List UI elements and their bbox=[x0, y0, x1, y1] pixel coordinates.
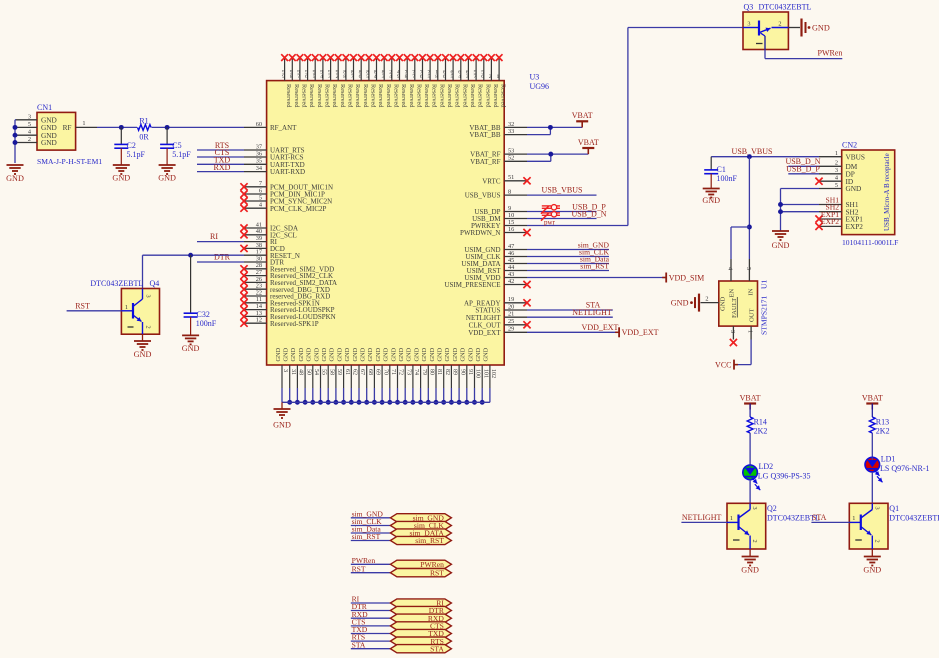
svg-text:Reserved: Reserved bbox=[377, 84, 384, 108]
svg-text:21: 21 bbox=[508, 311, 514, 318]
svg-text:GND: GND bbox=[298, 347, 305, 361]
svg-text:Q3: Q3 bbox=[744, 3, 754, 12]
svg-text:4: 4 bbox=[458, 74, 461, 80]
svg-text:100nF: 100nF bbox=[717, 174, 738, 183]
svg-text:GND: GND bbox=[336, 347, 343, 361]
svg-text:6: 6 bbox=[359, 74, 362, 80]
svg-text:Reserved: Reserved bbox=[385, 84, 392, 108]
svg-text:sim_RST: sim_RST bbox=[415, 536, 444, 545]
U3 bottom pin 100 GND bbox=[467, 347, 480, 404]
wire net RXD bbox=[197, 163, 244, 172]
U3 top pin 95 Reserved bbox=[312, 54, 323, 108]
svg-text:7: 7 bbox=[474, 74, 477, 80]
svg-text:Reserved: Reserved bbox=[339, 84, 346, 108]
svg-text:Reserved: Reserved bbox=[438, 84, 445, 108]
svg-text:VBAT_BB: VBAT_BB bbox=[469, 131, 500, 139]
junction node RESET-C32 bbox=[188, 253, 193, 258]
U3 bottom pin 48 GND bbox=[290, 347, 303, 404]
U3 right pin 44 USIM_RST bbox=[467, 264, 527, 275]
svg-text:VCC: VCC bbox=[715, 360, 731, 369]
U3 left pin 13 Reserved-LOUDSPKN bbox=[240, 310, 335, 321]
svg-text:GND: GND bbox=[112, 174, 130, 183]
svg-text:47: 47 bbox=[508, 243, 514, 250]
U3 right pin 9 USB_DP bbox=[474, 205, 527, 216]
wire net DTR left bbox=[197, 253, 244, 262]
U3 left pin 22 reserved_DBG_RXD bbox=[240, 289, 330, 300]
svg-text:19: 19 bbox=[508, 296, 514, 303]
U3 right pin 33 VBAT_BB bbox=[469, 128, 527, 139]
svg-text:GND: GND bbox=[313, 347, 320, 361]
svg-text:Reserved: Reserved bbox=[492, 84, 499, 108]
U3 top pin 94 Reserved bbox=[320, 54, 331, 108]
U3 left pin 30 DTR bbox=[244, 255, 284, 266]
svg-text:Reserved: Reserved bbox=[301, 84, 308, 108]
U3 bottom pin 80 GND bbox=[421, 347, 434, 404]
X no-connect CN2 ID bbox=[815, 178, 822, 185]
svg-text:1: 1 bbox=[730, 515, 733, 522]
off-page connector RST bbox=[351, 564, 452, 577]
diff pair marker 2 bbox=[541, 212, 560, 221]
U3 bottom pin 72 GND bbox=[390, 347, 403, 404]
svg-text:NETLIGHT: NETLIGHT bbox=[572, 308, 612, 317]
U3 left pin 40 I2C_SCL bbox=[240, 228, 296, 239]
svg-text:4: 4 bbox=[320, 74, 323, 80]
U3 left pin 7 PCM_DOUT_MIC1N bbox=[240, 180, 333, 191]
svg-text:1: 1 bbox=[125, 304, 128, 311]
off-page connector PWRen bbox=[351, 556, 452, 569]
svg-text:6: 6 bbox=[420, 74, 423, 80]
U3 top pin 64 Reserved bbox=[457, 54, 468, 108]
svg-text:GND: GND bbox=[158, 174, 176, 183]
wire VBAT_RF pair bbox=[527, 152, 588, 162]
svg-text:GND: GND bbox=[467, 347, 474, 361]
svg-text:3: 3 bbox=[382, 74, 385, 80]
svg-text:R1: R1 bbox=[139, 116, 148, 125]
U3 right pin 21 NETLIGHT bbox=[466, 311, 527, 322]
svg-text:6: 6 bbox=[481, 74, 484, 80]
svg-text:GND: GND bbox=[863, 566, 881, 575]
svg-text:61: 61 bbox=[344, 369, 350, 375]
U3 left pin 37 UART_RTS bbox=[244, 143, 305, 154]
ground C2 bbox=[112, 165, 130, 183]
wire net NETLIGHT to Q2 bbox=[681, 513, 727, 522]
svg-text:UG96: UG96 bbox=[530, 82, 550, 91]
svg-text:GND: GND bbox=[344, 347, 351, 361]
svg-text:72: 72 bbox=[398, 369, 404, 375]
wire CN2 GND SH1 SH2 bbox=[778, 189, 839, 232]
wire net sim_CLK right bbox=[527, 248, 610, 257]
svg-text:VBAT: VBAT bbox=[578, 138, 599, 147]
svg-text:50: 50 bbox=[305, 369, 311, 375]
svg-text:GND: GND bbox=[275, 347, 282, 361]
svg-text:58: 58 bbox=[328, 369, 334, 375]
ground Q1 bbox=[863, 549, 881, 575]
power VBAT Q1 bbox=[862, 393, 883, 417]
svg-text:RF_ANT: RF_ANT bbox=[270, 124, 297, 132]
wire LED to Q2 bbox=[749, 480, 751, 504]
resistor R13 2K2 bbox=[869, 417, 889, 436]
svg-text:SH2: SH2 bbox=[825, 203, 839, 212]
svg-text:STA: STA bbox=[430, 644, 444, 653]
U3 top pin 88 Reserved bbox=[343, 54, 354, 108]
svg-text:2K2: 2K2 bbox=[754, 427, 768, 436]
svg-text:81: 81 bbox=[436, 369, 442, 375]
svg-text:37: 37 bbox=[256, 143, 262, 150]
U3 bottom pin 102 GND bbox=[483, 347, 496, 402]
U3 left pin 14 Reserved-LOUDSPKP bbox=[240, 303, 334, 314]
transistor Q1 DTC043ZEBTL bbox=[849, 503, 939, 549]
svg-text:GND: GND bbox=[483, 347, 490, 361]
capacitor C5 5.1pF bbox=[160, 127, 191, 165]
svg-text:GND: GND bbox=[452, 347, 459, 361]
X no-connect U1 FAULT bbox=[730, 339, 737, 346]
U3 bottom pin 81 GND bbox=[429, 347, 442, 404]
svg-text:FAULT: FAULT bbox=[731, 298, 738, 318]
capacitor C2 5.1pF bbox=[114, 127, 145, 165]
svg-text:GND: GND bbox=[702, 196, 720, 205]
svg-text:DTC043ZEBTL: DTC043ZEBTL bbox=[889, 514, 939, 523]
svg-text:Reserved: Reserved bbox=[347, 84, 354, 108]
svg-text:44: 44 bbox=[508, 264, 515, 271]
svg-text:59: 59 bbox=[336, 369, 342, 375]
svg-text:GND: GND bbox=[6, 174, 24, 183]
U3 right pin 46 USIM_CLK bbox=[465, 250, 527, 261]
svg-text:48: 48 bbox=[298, 369, 304, 375]
svg-text:7: 7 bbox=[412, 74, 415, 80]
svg-text:UART-RXD: UART-RXD bbox=[270, 168, 305, 176]
svg-text:GND: GND bbox=[352, 347, 359, 361]
svg-text:32: 32 bbox=[508, 121, 514, 128]
U3 left pin 26 Reserved_SIM2_DATA bbox=[240, 276, 337, 287]
LED LD2 LG Q396-PS-35 bbox=[743, 462, 811, 490]
svg-text:Q1: Q1 bbox=[889, 504, 899, 513]
svg-text:OUT: OUT bbox=[749, 308, 756, 322]
U3 right pin 20 STATUS bbox=[475, 303, 527, 314]
U3 bottom pin 82 GND bbox=[437, 347, 450, 404]
svg-text:U1: U1 bbox=[760, 280, 769, 289]
U3 right pin 42 USIM_PRESENCE bbox=[444, 278, 530, 289]
svg-text:VDD_EXT: VDD_EXT bbox=[582, 323, 619, 332]
svg-text:VDD_EXT: VDD_EXT bbox=[622, 328, 659, 337]
svg-text:RST: RST bbox=[75, 301, 90, 310]
svg-text:GND: GND bbox=[772, 241, 790, 250]
svg-text:PCM_CLK_MIC2P: PCM_CLK_MIC2P bbox=[270, 205, 327, 213]
CN2 pin VBUS bbox=[819, 150, 865, 161]
svg-text:USB_D_P: USB_D_P bbox=[786, 165, 820, 174]
wire net sim_GND right bbox=[527, 241, 610, 250]
wire net sim_Data right bbox=[527, 255, 610, 264]
wire RF net bbox=[97, 126, 244, 128]
svg-text:Reserved: Reserved bbox=[331, 84, 338, 108]
svg-text:Reserved: Reserved bbox=[308, 84, 315, 108]
connector CN1 SMA-J-P-H-ST-EM1 body bbox=[37, 103, 102, 166]
ground Q2 bbox=[741, 549, 759, 575]
svg-text:Reserved: Reserved bbox=[316, 84, 323, 108]
svg-text:Reserved: Reserved bbox=[461, 84, 468, 108]
U1 pin 1 OUT stub bbox=[747, 326, 754, 339]
CN2 pin EXP2 bbox=[819, 222, 863, 231]
svg-text:Q2: Q2 bbox=[767, 504, 777, 513]
U3 bottom pin 62 GND bbox=[344, 347, 357, 404]
wire net NETLIGHT from pin 21 bbox=[527, 308, 613, 317]
wire net sim_RST right bbox=[527, 262, 609, 271]
port VDD_SIM bbox=[662, 273, 704, 283]
U3 top pin 97 Reserved bbox=[297, 54, 308, 108]
U3 left pin 36 UART-RCS bbox=[244, 150, 304, 161]
svg-text:3: 3 bbox=[835, 167, 838, 174]
svg-text:53: 53 bbox=[508, 148, 514, 155]
svg-text:GND: GND bbox=[321, 347, 328, 361]
U3 bottom pin 67 GND bbox=[352, 347, 365, 404]
svg-text:Reserved: Reserved bbox=[446, 84, 453, 108]
U3 left pin 35 UART-TXD bbox=[244, 158, 305, 169]
ground Q4 bbox=[134, 334, 152, 359]
svg-text:C5: C5 bbox=[172, 141, 181, 150]
svg-text:69: 69 bbox=[375, 369, 381, 375]
U3 bottom pin 3 GND bbox=[275, 347, 288, 402]
wire net STA to Q1 bbox=[811, 513, 849, 522]
wire VBAT_BB pair bbox=[527, 125, 582, 135]
off-page connector sim_GND bbox=[351, 509, 452, 522]
svg-text:7: 7 bbox=[259, 180, 262, 187]
U3 bottom pin 71 GND bbox=[383, 347, 396, 404]
svg-text:7: 7 bbox=[297, 74, 300, 80]
ground U3 bus bbox=[273, 402, 291, 429]
svg-text:VDD_SIM: VDD_SIM bbox=[669, 273, 705, 282]
svg-text:33: 33 bbox=[508, 128, 514, 135]
svg-text:2: 2 bbox=[778, 20, 781, 27]
U3 left pin 38 DCD bbox=[240, 242, 284, 253]
svg-text:73: 73 bbox=[405, 369, 411, 375]
U3 bottom pin 58 GND bbox=[321, 347, 334, 404]
svg-text:10104111-0001LF: 10104111-0001LF bbox=[842, 238, 898, 247]
U3 left pin 17 RESET_N bbox=[244, 249, 300, 260]
svg-text:GND: GND bbox=[41, 138, 57, 147]
svg-text:71: 71 bbox=[390, 369, 396, 375]
CN2 pin DM bbox=[819, 160, 858, 171]
svg-text:GND: GND bbox=[367, 347, 374, 361]
svg-text:Reserved: Reserved bbox=[362, 84, 369, 108]
U3 top pin 18 Reserved bbox=[434, 54, 445, 108]
svg-text:CN1: CN1 bbox=[37, 103, 52, 112]
svg-text:2: 2 bbox=[751, 540, 758, 543]
LED LD1 LS Q976-NR-1 bbox=[865, 454, 930, 482]
wire net TXD bbox=[197, 156, 244, 165]
wire OUT to VCC bbox=[734, 340, 751, 365]
svg-text:Q4: Q4 bbox=[150, 279, 160, 288]
U3 right pin 47 USIM_GND bbox=[464, 243, 527, 254]
U3 right pin 45 USIM_DATA bbox=[461, 257, 527, 268]
U3 right pin 43 USIM_VDD bbox=[464, 271, 527, 282]
U3 bottom pin 31 GND bbox=[283, 347, 296, 404]
off-page connector RTS bbox=[351, 633, 452, 646]
junction dots CN1 bbox=[13, 125, 18, 145]
svg-text:pwr: pwr bbox=[544, 218, 556, 226]
off-page connector sim_DATA bbox=[351, 525, 452, 538]
svg-text:Reserved: Reserved bbox=[293, 84, 300, 108]
power VBAT at VBAT_RF bbox=[578, 138, 599, 154]
svg-text:6: 6 bbox=[443, 74, 446, 80]
svg-text:3: 3 bbox=[729, 330, 736, 333]
wire USB_DM net USB_D_N bbox=[527, 209, 607, 218]
svg-text:5: 5 bbox=[428, 74, 431, 80]
ground C1 bbox=[702, 189, 720, 206]
svg-text:Reserved: Reserved bbox=[354, 84, 361, 108]
U3 top pin 78 Reserved bbox=[404, 54, 415, 108]
U3 top pin 65 Reserved bbox=[450, 54, 461, 108]
U3 bottom pin 90 GND bbox=[452, 347, 465, 404]
svg-text:GND: GND bbox=[437, 347, 444, 361]
svg-text:5: 5 bbox=[28, 121, 31, 128]
U3 bottom pin 91 GND bbox=[460, 347, 473, 404]
svg-text:Reserved: Reserved bbox=[285, 84, 292, 108]
transistor Q2 DTC043ZEBTL bbox=[727, 503, 820, 549]
svg-text:2: 2 bbox=[705, 296, 708, 303]
U3 left pin 28 Reserved_SIM2_VDD bbox=[240, 262, 334, 273]
ground bar U1 bbox=[671, 294, 699, 312]
U3 left pin 39 RI bbox=[244, 235, 278, 246]
svg-text:2: 2 bbox=[28, 136, 31, 143]
svg-text:GND: GND bbox=[846, 184, 862, 193]
U3 left pin 11 Reserved-SPK1N bbox=[240, 296, 319, 307]
svg-text:70: 70 bbox=[382, 369, 388, 375]
svg-text:2: 2 bbox=[336, 74, 339, 80]
svg-text:Reserved: Reserved bbox=[324, 84, 331, 108]
Q3 pin 2 stub to ground bbox=[788, 27, 800, 29]
svg-text:16: 16 bbox=[508, 226, 514, 233]
U3 right pin 8 USB_VBUS bbox=[465, 189, 527, 200]
svg-text:STMPS2171: STMPS2171 bbox=[760, 296, 769, 335]
X no-connect CN2 EXP2 bbox=[815, 217, 839, 230]
U3 right pin 53 VBAT_RF bbox=[470, 148, 527, 159]
svg-text:5.1pF: 5.1pF bbox=[127, 150, 146, 159]
U3 top pin 84 Reserved bbox=[373, 54, 384, 108]
off-page connector TXD bbox=[351, 625, 452, 638]
svg-text:100nF: 100nF bbox=[196, 319, 217, 328]
svg-text:1: 1 bbox=[835, 150, 838, 157]
IC U1 STMPS2171 body bbox=[719, 280, 769, 335]
U3 top pin 63 Reserved bbox=[465, 54, 476, 108]
svg-text:3: 3 bbox=[751, 507, 758, 510]
svg-text:VBAT: VBAT bbox=[862, 393, 883, 402]
U3 bottom pin 59 GND bbox=[329, 347, 342, 404]
svg-text:5.1pF: 5.1pF bbox=[172, 150, 191, 159]
svg-text:74: 74 bbox=[413, 369, 419, 375]
svg-text:52: 52 bbox=[508, 155, 514, 162]
U3 right pin 32 VBAT_BB bbox=[469, 121, 527, 132]
svg-text:GND: GND bbox=[671, 299, 689, 308]
U3 right pin 52 VBAT_RF bbox=[470, 155, 527, 166]
U3 top pin 1 Reserved bbox=[496, 54, 507, 108]
svg-text:90: 90 bbox=[459, 369, 465, 375]
resistor R14 2K2 bbox=[747, 417, 767, 436]
CN1 pin 1 RF name bbox=[63, 123, 72, 132]
junction node EN tap bbox=[747, 225, 752, 230]
U3 bottom pin 101 GND bbox=[475, 347, 488, 404]
port VCC bbox=[715, 360, 738, 370]
svg-text:LS Q976-NR-1: LS Q976-NR-1 bbox=[880, 464, 930, 473]
svg-text:1: 1 bbox=[82, 120, 85, 127]
svg-text:GND: GND bbox=[475, 347, 482, 361]
U3 top pin 57 Reserved bbox=[473, 54, 484, 108]
svg-text:12: 12 bbox=[256, 317, 262, 324]
svg-text:VBAT_RF: VBAT_RF bbox=[470, 158, 500, 166]
CN1 pin 2 GND bbox=[16, 136, 57, 147]
U3 top pin 83 Reserved bbox=[381, 54, 392, 108]
svg-text:5: 5 bbox=[835, 182, 838, 189]
svg-text:GND: GND bbox=[383, 347, 390, 361]
wire PWRen from Q3 bbox=[765, 48, 842, 58]
svg-text:8: 8 bbox=[343, 74, 346, 80]
svg-text:VRTC: VRTC bbox=[482, 177, 501, 185]
capacitor C32 100nF bbox=[184, 255, 217, 335]
U3 top pin 24 Reserved bbox=[388, 54, 399, 108]
U3 bottom pin 89 GND bbox=[444, 347, 457, 404]
svg-text:1: 1 bbox=[852, 515, 855, 522]
off-page connector STA bbox=[351, 640, 452, 653]
port VDD_EXT bbox=[615, 327, 658, 337]
U3 left pin 6 PCM_DIN_MIC1P bbox=[240, 187, 325, 198]
svg-text:VDD_EXT: VDD_EXT bbox=[468, 329, 501, 337]
svg-text:GND: GND bbox=[812, 24, 830, 33]
wire PWRKEY pwr net to Q3 bbox=[527, 28, 743, 227]
wire USB_D_P to CN2 DP bbox=[786, 165, 820, 174]
U3 top pin 87 Reserved bbox=[350, 54, 361, 108]
U3 left pin 60 RF_ANT bbox=[244, 121, 297, 132]
U3 bottom pin 50 GND bbox=[298, 347, 311, 404]
svg-text:DTR: DTR bbox=[214, 253, 231, 262]
svg-text:8: 8 bbox=[435, 74, 438, 80]
U3 bottom pin 54 GND bbox=[306, 347, 319, 404]
CN1 pin 1 stub bbox=[76, 120, 97, 127]
svg-text:Reserved: Reserved bbox=[500, 84, 507, 108]
svg-text:USB_VBUS: USB_VBUS bbox=[542, 186, 583, 195]
U3 right pin 19 AP_READY bbox=[464, 296, 531, 307]
wire net CTS bbox=[197, 148, 244, 157]
off-page connector RI bbox=[351, 595, 452, 608]
CN2 pin DP bbox=[819, 167, 855, 178]
svg-text:3: 3 bbox=[328, 74, 331, 80]
svg-text:5: 5 bbox=[313, 74, 316, 80]
svg-text:3: 3 bbox=[747, 20, 750, 27]
svg-text:LD2: LD2 bbox=[759, 462, 774, 471]
svg-text:GND: GND bbox=[273, 421, 291, 430]
svg-text:10: 10 bbox=[508, 212, 514, 219]
svg-text:79: 79 bbox=[421, 369, 427, 375]
U3 right pin 51 VRTC bbox=[482, 174, 530, 185]
U3 right pin 10 USB_DM bbox=[472, 212, 527, 223]
svg-text:55: 55 bbox=[321, 369, 327, 375]
power VBAT Q2 bbox=[740, 393, 761, 417]
svg-text:3: 3 bbox=[873, 507, 880, 510]
svg-text:6: 6 bbox=[305, 74, 308, 80]
U3 right pin 16 PWRDWN_N bbox=[460, 226, 531, 237]
svg-text:RXD: RXD bbox=[214, 163, 231, 172]
svg-text:3: 3 bbox=[466, 74, 469, 80]
ground bar Q3 bbox=[802, 19, 830, 37]
svg-text:9: 9 bbox=[508, 205, 511, 212]
off-page connector CTS bbox=[351, 618, 452, 631]
svg-text:GND: GND bbox=[290, 347, 297, 361]
ground CN1 bbox=[6, 165, 24, 183]
svg-text:82: 82 bbox=[444, 369, 450, 375]
svg-text:2: 2 bbox=[145, 326, 152, 329]
wire net STA from pin 20 bbox=[527, 301, 613, 310]
svg-text:25: 25 bbox=[508, 318, 514, 325]
svg-text:101: 101 bbox=[482, 369, 488, 378]
IC U3 UG96 body bbox=[267, 73, 549, 366]
svg-text:STA: STA bbox=[812, 513, 827, 522]
